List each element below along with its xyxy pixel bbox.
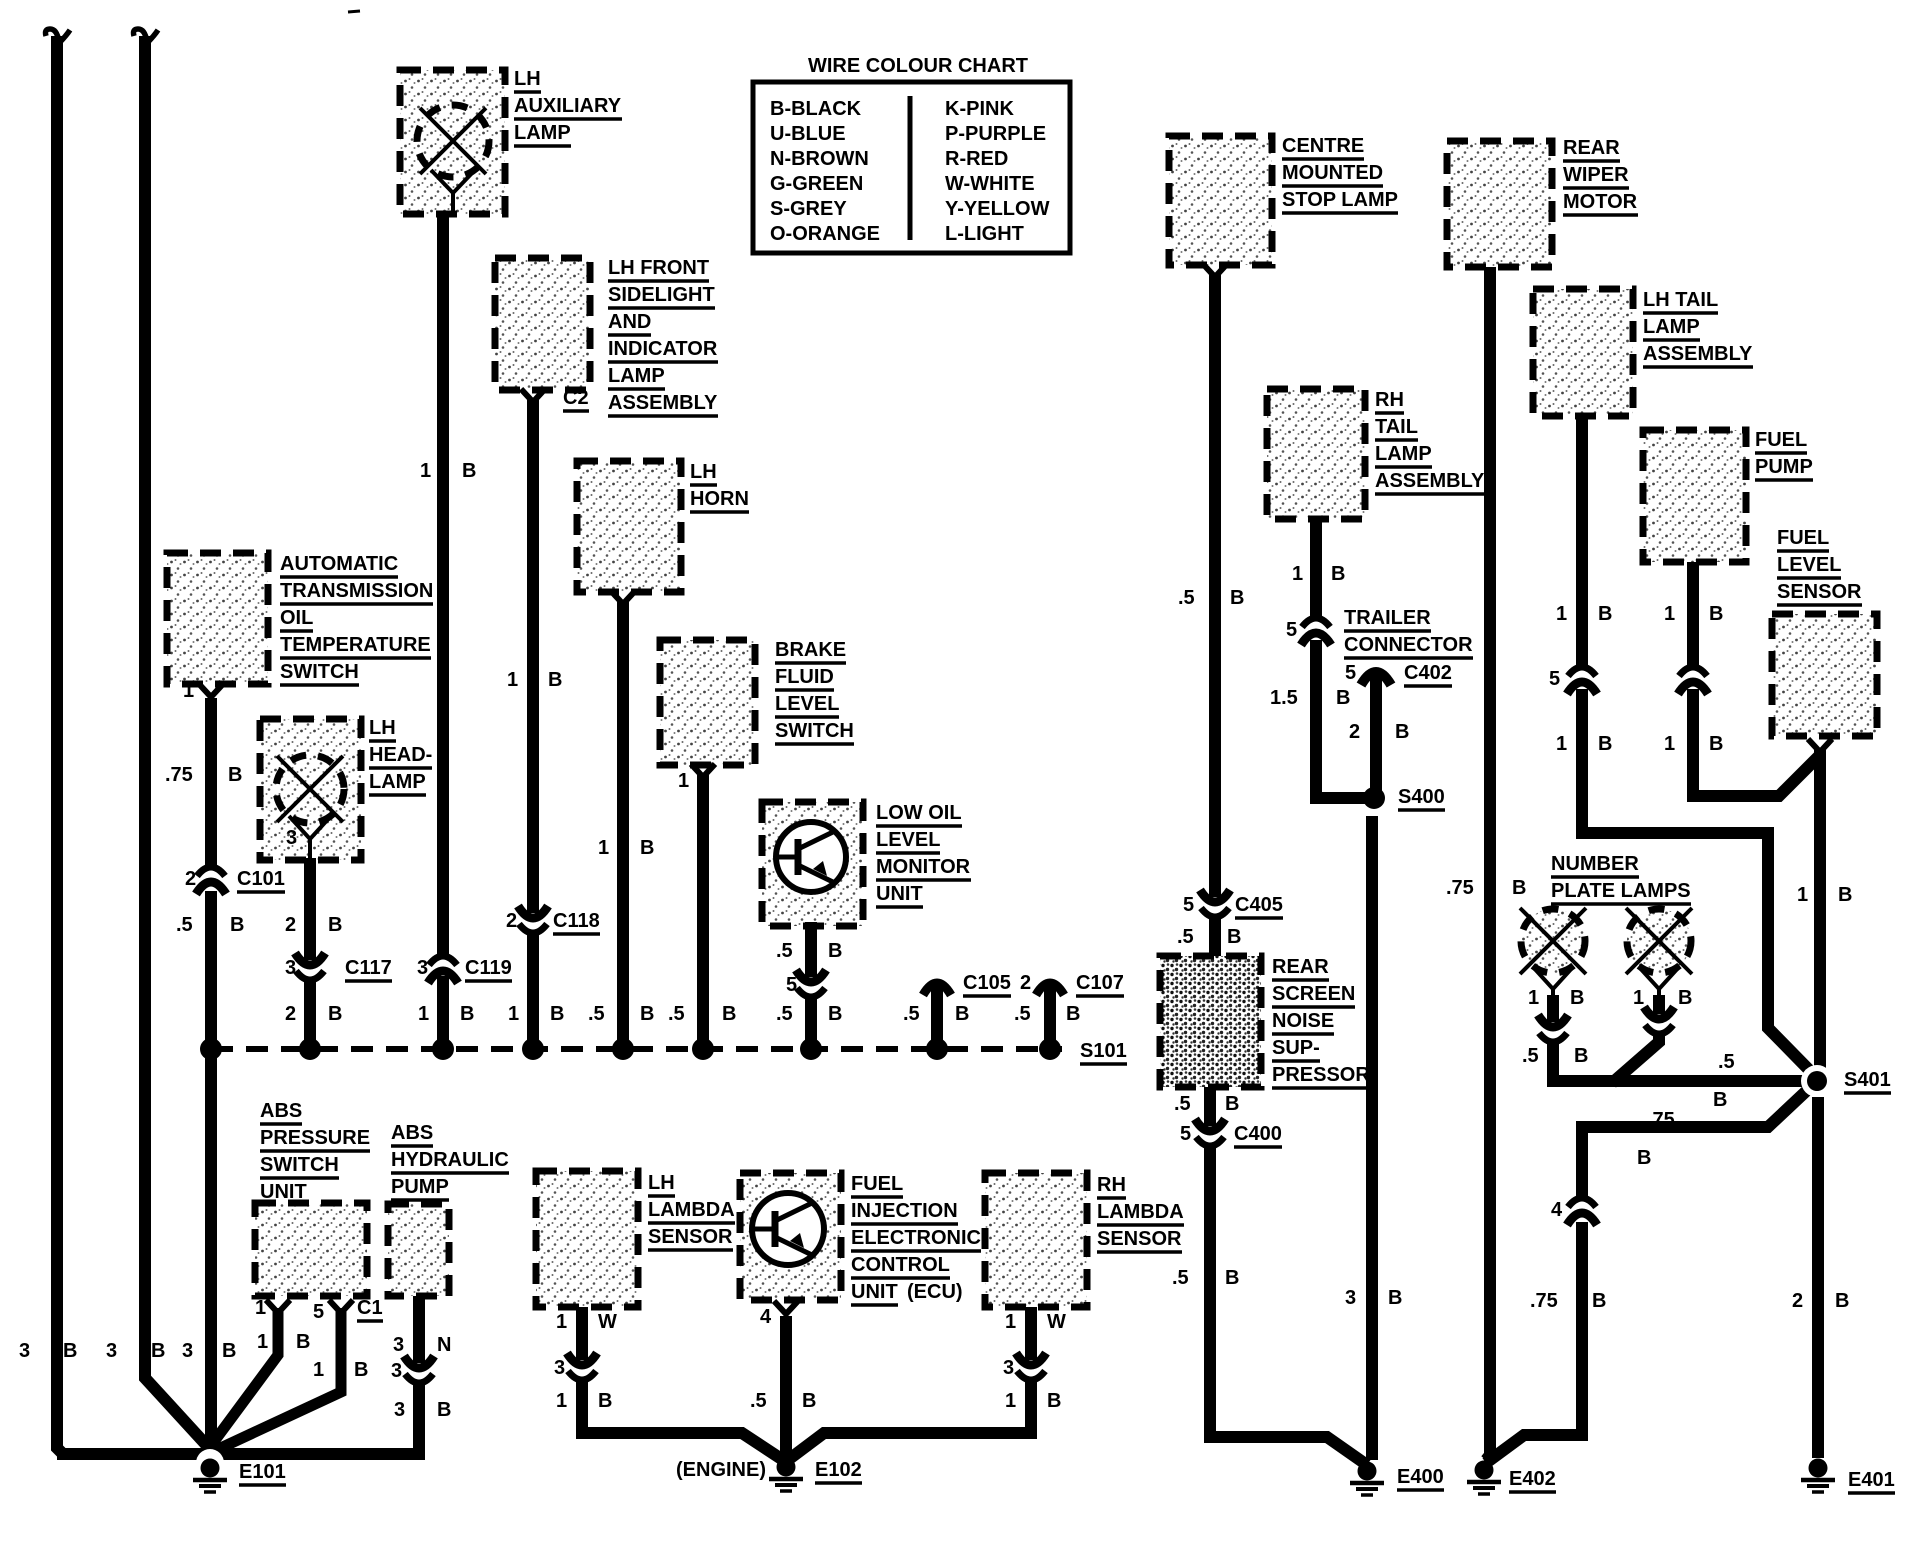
terminal Y at LH horn xyxy=(611,591,635,604)
svg-text:C1: C1 xyxy=(357,1297,383,1319)
wire: low oil monitor to S101 bus xyxy=(805,922,817,977)
box: LH headlamp xyxy=(260,719,361,860)
svg-text:O-ORANGE: O-ORANGE xyxy=(770,223,880,245)
terminal Y connector C2 xyxy=(521,389,545,402)
svg-text:B: B xyxy=(550,1003,564,1025)
svg-text:W: W xyxy=(598,1311,617,1333)
box: centre mounted stop lamp xyxy=(1169,136,1272,265)
wire: ECU to E102 xyxy=(780,1316,792,1462)
svg-text:K-PINK: K-PINK xyxy=(945,98,1014,120)
svg-text:LAMBDA: LAMBDA xyxy=(1097,1201,1184,1223)
svg-text:E101: E101 xyxy=(239,1461,286,1483)
svg-text:AUXILIARY: AUXILIARY xyxy=(514,95,622,117)
svg-text:SIDELIGHT: SIDELIGHT xyxy=(608,284,715,306)
svg-text:B: B xyxy=(1570,987,1584,1009)
svg-text:B: B xyxy=(1574,1045,1588,1067)
svg-text:ELECTRONIC: ELECTRONIC xyxy=(851,1227,981,1249)
svg-text:2: 2 xyxy=(285,1003,296,1025)
svg-text:AND: AND xyxy=(608,311,651,333)
svg-text:UNIT: UNIT xyxy=(876,883,923,905)
box: fuel pump xyxy=(1643,430,1746,562)
svg-text:MOUNTED: MOUNTED xyxy=(1282,162,1383,184)
svg-text:B: B xyxy=(328,1003,342,1025)
svg-text:.5: .5 xyxy=(776,1003,793,1025)
svg-text:B: B xyxy=(802,1390,816,1412)
svg-text:TAIL: TAIL xyxy=(1375,416,1418,438)
svg-text:B: B xyxy=(1230,587,1244,609)
svg-text:CONNECTOR: CONNECTOR xyxy=(1344,634,1473,656)
svg-text:SWITCH: SWITCH xyxy=(775,720,854,742)
svg-text:SENSOR: SENSOR xyxy=(1777,581,1862,603)
svg-text:Y-YELLOW: Y-YELLOW xyxy=(945,198,1050,220)
box: automatic transmission oil temperature switch xyxy=(167,553,268,684)
node S401 xyxy=(1801,1065,1833,1097)
svg-text:B: B xyxy=(955,1003,969,1025)
svg-text:B: B xyxy=(354,1359,368,1381)
svg-text:.75: .75 xyxy=(1530,1290,1558,1312)
terminal Y at ATS switch pin 1 xyxy=(199,684,223,697)
svg-text:LH FRONT: LH FRONT xyxy=(608,257,709,279)
svg-text:OIL: OIL xyxy=(280,607,313,629)
svg-text:LH: LH xyxy=(514,68,541,90)
svg-text:LAMBDA: LAMBDA xyxy=(648,1199,735,1221)
svg-text:3: 3 xyxy=(394,1399,405,1421)
svg-text:B: B xyxy=(1637,1147,1651,1169)
svg-text:SENSOR: SENSOR xyxy=(1097,1228,1182,1250)
svg-text:LAMP: LAMP xyxy=(1643,316,1700,338)
svg-text:2: 2 xyxy=(1792,1290,1803,1312)
box: ABS pressure switch unit xyxy=(255,1203,367,1296)
svg-text:RH: RH xyxy=(1097,1174,1126,1196)
connector (5) arrow up xyxy=(1302,618,1330,627)
svg-text:2: 2 xyxy=(185,868,196,890)
svg-text:TRAILER: TRAILER xyxy=(1344,607,1431,629)
svg-text:B: B xyxy=(230,914,244,936)
ground E102 (engine) xyxy=(777,1458,796,1477)
svg-text:FLUID: FLUID xyxy=(775,666,834,688)
svg-text:1: 1 xyxy=(1664,733,1675,755)
svg-text:LAMP: LAMP xyxy=(608,365,665,387)
svg-text:CENTRE: CENTRE xyxy=(1282,135,1364,157)
svg-text:1: 1 xyxy=(556,1390,567,1412)
svg-text:B: B xyxy=(598,1390,612,1412)
svg-text:N-BROWN: N-BROWN xyxy=(770,148,869,170)
svg-text:PRESSURE: PRESSURE xyxy=(260,1127,370,1149)
svg-text:C117: C117 xyxy=(345,957,392,979)
svg-text:C107: C107 xyxy=(1076,972,1124,994)
svg-text:.5: .5 xyxy=(776,940,793,962)
connector C119 (arrow up) xyxy=(429,956,457,965)
terminal Y at ABS switch pin 5 (C1) xyxy=(329,1300,353,1313)
svg-text:B: B xyxy=(1598,733,1612,755)
svg-text:1: 1 xyxy=(1528,987,1539,1009)
junction dot on S101 bus at x=533 xyxy=(522,1038,544,1060)
box: LH tail lamp assembly xyxy=(1533,289,1633,416)
svg-text:B: B xyxy=(1512,877,1526,899)
junction dot on S101 bus at x=310 xyxy=(299,1038,321,1060)
svg-text:S401: S401 xyxy=(1844,1069,1891,1091)
wire: LH lambda sensor to E102 xyxy=(576,1307,588,1360)
svg-text:UNIT: UNIT xyxy=(851,1281,898,1303)
svg-text:3: 3 xyxy=(1003,1357,1014,1379)
connector C118 (arrow down) xyxy=(519,924,547,933)
wire: number plate lamp 1 to S401 xyxy=(1547,995,1559,1022)
svg-text:FUEL: FUEL xyxy=(1777,527,1829,549)
svg-text:SCREEN: SCREEN xyxy=(1272,983,1355,1005)
svg-text:INDICATOR: INDICATOR xyxy=(608,338,718,360)
lamp symbol: number plate lamp 2 xyxy=(1627,909,1691,973)
connector (3) arrow down on pump wire xyxy=(405,1374,433,1383)
wire: fuel pump to fuel level sensor junction xyxy=(1687,562,1699,667)
svg-text:3: 3 xyxy=(285,957,296,979)
ground E101 xyxy=(196,1449,224,1477)
svg-text:U-BLUE: U-BLUE xyxy=(770,123,846,145)
svg-text:INJECTION: INJECTION xyxy=(851,1200,958,1222)
svg-text:BRAKE: BRAKE xyxy=(775,639,846,661)
box: RH lambda sensor xyxy=(985,1173,1087,1307)
svg-text:REAR: REAR xyxy=(1272,956,1329,978)
svg-text:B: B xyxy=(1835,1290,1849,1312)
svg-text:C400: C400 xyxy=(1234,1123,1282,1145)
svg-text:SENSOR: SENSOR xyxy=(648,1226,733,1248)
svg-text:3: 3 xyxy=(286,827,297,849)
svg-text:B: B xyxy=(1066,1003,1080,1025)
svg-text:LAMP: LAMP xyxy=(369,771,426,793)
svg-text:1: 1 xyxy=(1633,987,1644,1009)
svg-text:C105: C105 xyxy=(963,972,1011,994)
svg-text:CONTROL: CONTROL xyxy=(851,1254,950,1276)
svg-text:.5: .5 xyxy=(1177,926,1194,948)
svg-text:TRANSMISSION: TRANSMISSION xyxy=(280,580,433,602)
svg-text:MONITOR: MONITOR xyxy=(876,856,971,878)
svg-text:LEVEL: LEVEL xyxy=(775,693,839,715)
svg-text:B: B xyxy=(1592,1290,1606,1312)
junction dot on S101 bus at x=443 xyxy=(432,1038,454,1060)
svg-text:1: 1 xyxy=(183,680,194,702)
svg-text:NOISE: NOISE xyxy=(1272,1010,1334,1032)
svg-text:1: 1 xyxy=(556,1311,567,1333)
wire: LH auxiliary lamp to S101 bus xyxy=(437,212,449,956)
ground E400 xyxy=(1358,1462,1377,1481)
svg-text:B: B xyxy=(1331,563,1345,585)
ground E401 xyxy=(1809,1459,1828,1478)
svg-text:1: 1 xyxy=(507,669,518,691)
svg-text:S-GREY: S-GREY xyxy=(770,198,847,220)
svg-text:LH: LH xyxy=(369,717,396,739)
svg-text:5: 5 xyxy=(1549,668,1560,690)
svg-text:B: B xyxy=(1227,926,1241,948)
box: rear screen noise suppressor xyxy=(1160,956,1261,1087)
svg-text:3: 3 xyxy=(182,1340,193,1362)
svg-text:LOW OIL: LOW OIL xyxy=(876,802,962,824)
svg-text:C101: C101 xyxy=(237,868,285,890)
terminal Y at ECU pin 4 xyxy=(774,1301,798,1314)
svg-text:ASSEMBLY: ASSEMBLY xyxy=(608,392,718,414)
connector (5) arrow down xyxy=(797,988,825,997)
svg-text:.5: .5 xyxy=(750,1390,767,1412)
svg-text:LEVEL: LEVEL xyxy=(876,829,940,851)
svg-text:1.5: 1.5 xyxy=(1270,687,1298,709)
wire: LH headlamp to S101 bus xyxy=(304,858,316,960)
svg-text:5: 5 xyxy=(1345,662,1356,684)
svg-text:B: B xyxy=(228,764,242,786)
connector C105 stub on S101 bus xyxy=(931,985,943,1049)
svg-text:1: 1 xyxy=(598,837,609,859)
box: LH auxiliary lamp xyxy=(400,70,505,214)
svg-text:3: 3 xyxy=(554,1357,565,1379)
svg-text:1: 1 xyxy=(418,1003,429,1025)
svg-text:.5: .5 xyxy=(588,1003,605,1025)
svg-text:.5: .5 xyxy=(1178,587,1195,609)
wire: sidelight C2 to S101 bus xyxy=(527,400,539,913)
svg-text:C2: C2 xyxy=(563,387,589,409)
wire: LH tail lamp to S401 xyxy=(1576,416,1588,667)
junction dot on S101 bus at x=1050 xyxy=(1039,1038,1061,1060)
svg-text:B: B xyxy=(1225,1267,1239,1289)
wire: RH lambda sensor to E102 xyxy=(1025,1307,1037,1360)
wire: S401 to number-plate feed (.75 B) xyxy=(1582,1081,1817,1198)
svg-text:1: 1 xyxy=(1556,603,1567,625)
svg-text:1: 1 xyxy=(313,1359,324,1381)
svg-text:1: 1 xyxy=(1292,563,1303,585)
svg-text:E102: E102 xyxy=(815,1459,862,1481)
connector hook at top of feed wire 1 xyxy=(46,29,60,42)
box: low oil level monitor unit xyxy=(762,802,863,926)
svg-text:B: B xyxy=(828,940,842,962)
svg-text:LAMP: LAMP xyxy=(1375,443,1432,465)
svg-text:B: B xyxy=(222,1340,236,1362)
svg-text:B: B xyxy=(640,837,654,859)
ground E402 xyxy=(1475,1461,1494,1480)
svg-text:B: B xyxy=(151,1340,165,1362)
svg-text:LH: LH xyxy=(648,1172,675,1194)
svg-text:PUMP: PUMP xyxy=(391,1176,449,1198)
svg-text:FUEL: FUEL xyxy=(851,1173,903,1195)
wire: ATS switch to S101 bus to E101 xyxy=(205,698,217,867)
box: RH tail lamp assembly xyxy=(1267,389,1365,519)
svg-text:.5: .5 xyxy=(903,1003,920,1025)
connector arrow up on fuel pump wire xyxy=(1679,667,1707,676)
terminal Y at ABS switch pin 1 xyxy=(266,1300,290,1313)
connector C405 (arrow down) xyxy=(1201,908,1229,917)
svg-text:.5: .5 xyxy=(668,1003,685,1025)
svg-text:B: B xyxy=(1336,687,1350,709)
svg-text:LH TAIL: LH TAIL xyxy=(1643,289,1718,311)
svg-text:5: 5 xyxy=(1286,619,1297,641)
svg-text:.5: .5 xyxy=(1718,1051,1735,1073)
svg-text:G-GREEN: G-GREEN xyxy=(770,173,863,195)
wire: LH horn to S101 bus xyxy=(617,602,629,1049)
svg-text:ASSEMBLY: ASSEMBLY xyxy=(1643,343,1753,365)
lamp symbol: number plate lamp 1 xyxy=(1521,909,1585,973)
wire: number plate lamp 2 to S401 wire xyxy=(1653,995,1665,1014)
wire: S401 to E401 xyxy=(1812,1097,1824,1458)
svg-text:TEMPERATURE: TEMPERATURE xyxy=(280,634,431,656)
svg-text:1: 1 xyxy=(678,770,689,792)
svg-text:2: 2 xyxy=(1349,721,1360,743)
svg-text:W-WHITE: W-WHITE xyxy=(945,173,1035,195)
connector hook at top of feed wire 2 xyxy=(134,29,148,42)
svg-text:B: B xyxy=(328,914,342,936)
svg-text:1: 1 xyxy=(255,1297,266,1319)
svg-text:LAMP: LAMP xyxy=(514,122,571,144)
connector arrow down on lamp 2 wire xyxy=(1645,1025,1673,1034)
box: LH horn xyxy=(577,461,681,592)
svg-text:.5: .5 xyxy=(1014,1003,1031,1025)
svg-text:2: 2 xyxy=(285,914,296,936)
svg-text:S400: S400 xyxy=(1398,786,1445,808)
svg-text:1: 1 xyxy=(1005,1390,1016,1412)
svg-text:SWITCH: SWITCH xyxy=(280,661,359,683)
svg-text:REAR: REAR xyxy=(1563,137,1620,159)
box: brake fluid level switch xyxy=(660,640,755,765)
svg-text:N: N xyxy=(437,1334,451,1356)
svg-text:PLATE LAMPS: PLATE LAMPS xyxy=(1551,880,1691,902)
svg-text:.75: .75 xyxy=(1647,1109,1675,1131)
svg-text:.5: .5 xyxy=(176,914,193,936)
svg-text:B: B xyxy=(722,1003,736,1025)
svg-text:B: B xyxy=(437,1399,451,1421)
svg-text:STOP LAMP: STOP LAMP xyxy=(1282,189,1398,211)
junction dot on S101 bus at x=623 xyxy=(612,1038,634,1060)
box: LH lambda sensor xyxy=(536,1171,638,1307)
connector (4) arrow up xyxy=(1568,1198,1596,1207)
svg-text:PRESSOR: PRESSOR xyxy=(1272,1064,1370,1086)
wire: ABS hydraulic pump to E101 xyxy=(413,1296,425,1363)
lamp symbol: LH auxiliary lamp xyxy=(417,105,489,177)
svg-text:4: 4 xyxy=(1551,1199,1563,1221)
svg-text:PUMP: PUMP xyxy=(1755,456,1813,478)
junction dot on S101 bus at x=703 xyxy=(692,1038,714,1060)
wire: RH tail lamp to S400 xyxy=(1310,519,1322,618)
svg-text:.5: .5 xyxy=(1174,1093,1191,1115)
svg-text:(ENGINE): (ENGINE) xyxy=(676,1459,766,1481)
svg-text:1: 1 xyxy=(1797,884,1808,906)
svg-text:B: B xyxy=(828,1003,842,1025)
svg-text:5: 5 xyxy=(1183,894,1194,916)
svg-text:C119: C119 xyxy=(465,957,512,979)
svg-text:SUP-: SUP- xyxy=(1272,1037,1320,1059)
wire: centre stop lamp to rear screen suppressor xyxy=(1209,275,1221,897)
svg-text:.5: .5 xyxy=(1522,1045,1539,1067)
svg-text:B: B xyxy=(462,460,476,482)
svg-text:4: 4 xyxy=(760,1306,772,1328)
svg-text:B: B xyxy=(1709,733,1723,755)
svg-text:B: B xyxy=(1395,721,1409,743)
svg-text:B: B xyxy=(548,669,562,691)
wire: brake fluid switch to S101 bus xyxy=(697,775,709,1049)
svg-text:B: B xyxy=(1388,1287,1402,1309)
svg-text:B: B xyxy=(460,1003,474,1025)
connector C117 (arrow down) xyxy=(296,971,324,980)
wire: rear screen suppressor to E400 xyxy=(1204,1087,1216,1126)
svg-text:E402: E402 xyxy=(1509,1468,1556,1490)
svg-text:AUTOMATIC: AUTOMATIC xyxy=(280,553,398,575)
svg-text:HYDRAULIC: HYDRAULIC xyxy=(391,1149,509,1171)
svg-text:NUMBER: NUMBER xyxy=(1551,853,1639,875)
connector (3) arrow down xyxy=(1017,1371,1045,1380)
svg-text:3: 3 xyxy=(391,1360,402,1382)
connector (5) arrow up xyxy=(1568,667,1596,676)
junction dot on S101 bus at x=811 xyxy=(800,1038,822,1060)
svg-text:1: 1 xyxy=(420,460,431,482)
box: ABS hydraulic pump xyxy=(388,1204,449,1296)
svg-text:B: B xyxy=(1047,1390,1061,1412)
svg-text:5: 5 xyxy=(786,974,797,996)
terminal Y at brake fluid switch pin 1 xyxy=(691,764,715,777)
svg-text:.75: .75 xyxy=(165,764,193,786)
connector C101 (arrow up) xyxy=(197,867,225,876)
svg-text:C118: C118 xyxy=(553,910,600,932)
svg-text:2: 2 xyxy=(506,910,517,932)
svg-text:MOTOR: MOTOR xyxy=(1563,191,1638,213)
svg-text:E401: E401 xyxy=(1848,1469,1895,1491)
svg-text:3: 3 xyxy=(417,957,428,979)
connector C400 (arrow down) xyxy=(1196,1137,1224,1146)
junction dot on S101 bus at x=211 xyxy=(200,1038,222,1060)
svg-text:E400: E400 xyxy=(1397,1466,1444,1488)
svg-text:FUEL: FUEL xyxy=(1755,429,1807,451)
box: rear wiper motor xyxy=(1447,141,1552,267)
bus S101 (dashed splice line) xyxy=(211,1046,1062,1052)
terminal Y at centre stop lamp xyxy=(1203,264,1227,277)
svg-text:S101: S101 xyxy=(1080,1040,1127,1062)
svg-text:B: B xyxy=(1225,1093,1239,1115)
transistor symbol: ECU xyxy=(752,1193,824,1265)
svg-text:3: 3 xyxy=(19,1340,30,1362)
svg-text:C405: C405 xyxy=(1235,894,1283,916)
svg-text:ASSEMBLY: ASSEMBLY xyxy=(1375,470,1485,492)
svg-text:RH: RH xyxy=(1375,389,1404,411)
svg-text:WIRE COLOUR CHART: WIRE COLOUR CHART xyxy=(808,55,1028,77)
connector C107 stub on S101 bus xyxy=(1044,985,1056,1049)
svg-text:(ECU): (ECU) xyxy=(907,1281,963,1303)
box: LH front sidelight and indicator lamp assembly xyxy=(495,258,590,390)
svg-text:B: B xyxy=(640,1003,654,1025)
svg-text:.75: .75 xyxy=(1446,877,1474,899)
terminal Y at fuel level sensor xyxy=(1808,739,1832,752)
svg-text:1: 1 xyxy=(1664,603,1675,625)
wire: fuel level sensor to S401 xyxy=(1814,750,1826,1078)
svg-text:B: B xyxy=(63,1340,77,1362)
wire colour chart box xyxy=(753,82,1070,253)
svg-text:B: B xyxy=(1678,987,1692,1009)
svg-text:1: 1 xyxy=(1005,1311,1016,1333)
svg-text:B: B xyxy=(296,1331,310,1353)
svg-text:B: B xyxy=(1598,603,1612,625)
svg-text:3: 3 xyxy=(1345,1287,1356,1309)
junction dot on S101 bus at x=937 xyxy=(926,1038,948,1060)
connector C402 stub (arrow up) xyxy=(1370,675,1382,793)
svg-text:1: 1 xyxy=(508,1003,519,1025)
svg-text:5: 5 xyxy=(313,1301,324,1323)
transistor symbol: low oil monitor xyxy=(776,822,846,892)
box: fuel level sensor xyxy=(1772,614,1877,736)
svg-text:B: B xyxy=(1838,884,1852,906)
svg-text:1: 1 xyxy=(1556,733,1567,755)
box: fuel injection electronic control unit xyxy=(740,1173,841,1300)
svg-text:B: B xyxy=(1713,1089,1727,1111)
svg-text:HORN: HORN xyxy=(690,488,749,510)
svg-text:LH: LH xyxy=(690,461,717,483)
svg-text:3: 3 xyxy=(393,1334,404,1356)
wire: left feed wire 2 (3 B) to E101 xyxy=(145,36,210,1449)
svg-text:R-RED: R-RED xyxy=(945,148,1008,170)
stray scan mark xyxy=(348,11,360,12)
lamp symbol: LH headlamp xyxy=(276,755,344,823)
svg-text:5: 5 xyxy=(1180,1123,1191,1145)
wire: S400 to E400 xyxy=(1366,816,1378,1460)
